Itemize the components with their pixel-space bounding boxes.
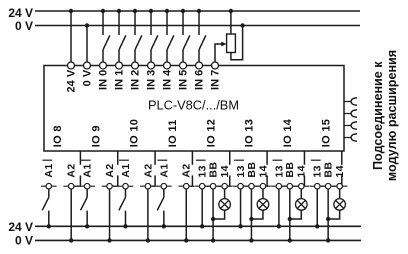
svg-text:0 V: 0 V — [15, 233, 33, 247]
wire: terminal BB to bottom 0 V rail (group 4) — [327, 189, 329, 240]
junction on bottom 24 V rail (13, group 4) — [315, 224, 319, 228]
svg-text:IN 1: IN 1 — [113, 70, 125, 90]
terminal A1 of relay K3 — [118, 183, 134, 189]
junction on 24 V rail (S2) — [133, 9, 137, 13]
overline mark above terminal 13 (group 2) — [234, 159, 244, 161]
svg-text:IN 2: IN 2 — [129, 70, 141, 90]
wire: terminal 14 to lamp H3 — [300, 189, 302, 199]
terminal A1 of relay K1 — [41, 183, 57, 189]
contact switch below A1 (relay K1) — [42, 197, 49, 210]
switch S3 contact (NO) for IN 3 — [151, 35, 158, 49]
svg-text:14: 14 — [257, 165, 269, 177]
wire: terminal 13 to bottom 24 V rail (group 2) — [240, 189, 242, 226]
switch S5 contact (NO) for IN 5 — [183, 35, 190, 49]
pin circle: IN 7 — [212, 62, 219, 69]
expansion bus contact 3 — [344, 122, 357, 129]
terminal BB (group 4) — [320, 183, 336, 189]
svg-text:A1: A1 — [43, 163, 55, 177]
svg-text:IO 8: IO 8 — [52, 125, 64, 147]
wire: terminal strip link to IO 11 leg — [190, 185, 193, 187]
switch S2 contact (NO) for IN 2 — [135, 35, 142, 49]
terminal 14 (group 1) — [217, 183, 233, 189]
wire: pin IN 7 to potentiometer wiper — [215, 44, 222, 62]
pin circle: IN 2 — [132, 62, 139, 69]
junction on bottom 24 V rail (K4) — [162, 224, 166, 228]
wire: contact to bottom 24 V rail (K1) — [48, 211, 50, 227]
wire: 24 V rail drop to switch S5 (IN 5) — [182, 11, 184, 35]
wire: PLC pin IO 14 drop (lower leg) — [303, 175, 305, 186]
terminal BB (group 1) — [205, 183, 221, 189]
junction on 24 V rail (S5) — [181, 9, 185, 13]
terminal A1 of relay K2 — [79, 183, 95, 189]
svg-text:IN 3: IN 3 — [145, 70, 157, 90]
wire: PLC pin IO 13 drop (lower leg) — [266, 175, 268, 186]
overline mark above terminal A1 (relay K3) — [119, 159, 129, 161]
contact switch below A1 (relay K3) — [119, 197, 126, 210]
wire: PLC pin IO 12 drop (lower leg) — [229, 175, 231, 186]
svg-text:A2: A2 — [181, 163, 193, 177]
wire: PLC pin IO 15 drop (lower leg) — [341, 175, 343, 186]
pin circle: IN 0 — [100, 62, 107, 69]
wire: potentiometer R1 bottom to 0 V rail — [231, 26, 243, 60]
svg-text:14: 14 — [296, 165, 308, 177]
terminal BB (group 3) — [282, 183, 298, 189]
wire: terminal A2 K4 to bottom 0 V rail — [185, 189, 187, 240]
contact switch below A1 (relay K2) — [81, 197, 88, 210]
svg-text:IO 9: IO 9 — [90, 125, 102, 147]
junction lamp H1 branch on BB wire — [211, 217, 215, 221]
wire: terminal strip link to IO 9 leg — [113, 185, 118, 187]
junction on 24 V rail (S1) — [117, 9, 121, 13]
pin circle: IN 1 — [116, 62, 123, 69]
wire: 24 V rail drop to switch S0 (IN 0) — [102, 11, 104, 35]
terminal 13 (group 4) — [309, 183, 325, 189]
wire: lamp H1 to BB wire — [213, 210, 225, 219]
wire: switch S5 to pin IN 5 — [182, 50, 184, 63]
wire: PLC pin IO 8 drop (upper) — [79, 151, 81, 165]
wire: PLC pin IO 10 drop (upper) — [154, 151, 156, 165]
junction on bottom 0 V rail (K3) — [146, 238, 150, 242]
svg-text:BB: BB — [246, 162, 258, 178]
wire: PLC pin IO 15 drop (upper) — [341, 151, 343, 165]
lamp H2 — [257, 199, 269, 211]
wire: lamp H2 to BB wire — [251, 210, 263, 219]
pin circle: 24 V — [68, 62, 75, 69]
potentiometer R1 wiper arrow — [221, 42, 226, 47]
wire: terminal A1 K3 to contact — [125, 189, 127, 197]
overline mark above terminal 13 (group 3) — [273, 159, 283, 161]
wire: terminal 13 to bottom 24 V rail (group 3) — [278, 189, 280, 226]
wire: contact to bottom 24 V rail (K4) — [163, 211, 165, 227]
wire: top 24 V rail — [35, 10, 360, 12]
junction on 0 V rail (pin 0V feed) — [85, 23, 89, 27]
wire: PLC pin IO 9 drop (upper) — [117, 151, 119, 165]
svg-text:PLC-V8C/.../BM: PLC-V8C/.../BM — [148, 98, 239, 113]
pin circle: IN 4 — [164, 62, 171, 69]
terminal A2 of relay K4 — [178, 183, 194, 189]
wire: terminal strip link to IO 10 leg — [151, 185, 155, 187]
svg-text:IO 12: IO 12 — [205, 119, 217, 147]
wire: PLC pin IO 12 drop (upper) — [229, 151, 231, 165]
svg-text:IN 6: IN 6 — [193, 70, 205, 90]
junction on 24 V rail (pin 24V feed) — [69, 9, 73, 13]
wire: terminal strip link to IO 12 leg — [228, 185, 230, 187]
wire: switch S4 to pin IN 4 — [166, 50, 168, 63]
svg-text:IN 5: IN 5 — [177, 70, 189, 90]
wire: terminal strip link to IO 14 leg — [304, 185, 306, 187]
junction on bottom 24 V rail (K2) — [85, 224, 89, 228]
svg-text:IO 14: IO 14 — [282, 118, 294, 147]
wire: bottom 0 V rail — [35, 239, 361, 241]
junction on bottom 0 V rail (K1) — [69, 238, 73, 242]
wire: contact to bottom 24 V rail (K3) — [125, 211, 127, 227]
switch S1 contact (NO) for IN 1 — [119, 35, 126, 49]
svg-text:IN 4: IN 4 — [161, 69, 173, 90]
terminal 13 (group 1) — [194, 183, 210, 189]
wire: 24 V rail drop to switch S2 (IN 2) — [134, 11, 136, 35]
svg-text:A2: A2 — [142, 163, 154, 177]
overline mark above terminal 13 (group 1) — [196, 159, 206, 161]
pin circle: IN 3 — [148, 62, 155, 69]
wire: terminal strip link to IO 8 leg — [75, 185, 82, 187]
svg-text:Подсоединение к: Подсоединение к — [371, 61, 385, 170]
wire: terminal 13 to bottom 24 V rail (group 1) — [201, 189, 203, 226]
svg-text:IO 15: IO 15 — [320, 119, 332, 147]
lamp H3 — [296, 199, 308, 211]
svg-text:14: 14 — [334, 165, 346, 177]
wire: 24 V rail drop to switch S3 (IN 3) — [150, 11, 152, 35]
overline mark above terminal A1 (relay K1) — [42, 159, 52, 161]
wire: PLC pin IO 11 drop (upper) — [191, 151, 193, 165]
pin circle: 0 V — [84, 62, 91, 69]
overline mark above terminal A1 (relay K2) — [81, 159, 91, 161]
svg-text:A2: A2 — [104, 163, 116, 177]
svg-text:24 V: 24 V — [8, 6, 33, 20]
switch S4 contact (NO) for IN 4 — [167, 35, 174, 49]
switch S6 contact (NO) for IN 6 — [199, 35, 206, 49]
svg-text:IO 11: IO 11 — [167, 119, 179, 147]
wire: terminal BB to bottom 0 V rail (group 1) — [212, 189, 214, 240]
wire: switch S6 to pin IN 6 — [198, 50, 200, 63]
wire: terminal A2 K3 to bottom 0 V rail — [147, 189, 149, 240]
wire: terminal 14 to lamp H1 — [224, 189, 226, 199]
wire: terminal A2 K1 to bottom 0 V rail — [70, 189, 72, 240]
svg-text:BB: BB — [284, 162, 296, 178]
terminal 14 (group 3) — [294, 183, 310, 189]
pin circle: IN 6 — [196, 62, 203, 69]
PLC module U1 outline — [44, 66, 344, 152]
junction on bottom 24 V rail (13, group 1) — [200, 224, 204, 228]
wire: terminal strip link to IO 13 leg — [266, 185, 267, 187]
lamp H4 — [334, 199, 346, 211]
wire: top 0 V rail — [35, 25, 360, 27]
junction on bottom 0 V rail (BB, group 2) — [249, 238, 253, 242]
switch S0 contact (NO) for IN 0 — [103, 35, 110, 49]
terminal 14 (group 4) — [332, 183, 348, 189]
svg-text:A2: A2 — [66, 163, 78, 177]
junction lamp H4 branch on BB wire — [326, 217, 330, 221]
svg-text:0 V: 0 V — [15, 19, 33, 33]
svg-text:24 V: 24 V — [8, 220, 33, 234]
wire: lamp H4 to BB wire — [328, 210, 340, 219]
svg-text:A1: A1 — [82, 163, 94, 177]
svg-text:0 V: 0 V — [81, 69, 93, 86]
wire: terminal A2 K2 to bottom 0 V rail — [109, 189, 111, 240]
wire: 0 V rail to PLC pin 0V — [86, 26, 88, 63]
svg-text:IO 13: IO 13 — [244, 119, 256, 147]
terminal A2 of relay K1 — [63, 183, 79, 189]
expansion bus contact 1 — [344, 98, 357, 105]
pin circle: IN 5 — [180, 62, 187, 69]
expansion bus contact 2 — [344, 110, 357, 117]
svg-text:A1: A1 — [158, 163, 170, 177]
wire: terminal A1 K2 to contact — [86, 189, 88, 197]
junction on bottom 0 V rail (BB, group 1) — [211, 238, 215, 242]
svg-text:IN 0: IN 0 — [97, 70, 109, 90]
wire: 24 V rail drop to switch S1 (IN 1) — [118, 11, 120, 35]
wire: lamp H3 to BB wire — [290, 210, 302, 219]
junction on bottom 24 V rail (13, group 2) — [238, 224, 242, 228]
junction on bottom 24 V rail (13, group 3) — [277, 224, 281, 228]
wire: PLC pin IO 13 drop (upper) — [266, 151, 268, 165]
wire: switch S2 to pin IN 2 — [134, 50, 136, 63]
svg-text:BB: BB — [208, 162, 220, 178]
overline mark above terminal A1 (relay K4) — [157, 159, 167, 161]
svg-text:24 V: 24 V — [65, 69, 77, 92]
terminal 13 (group 3) — [271, 183, 287, 189]
wire: terminal BB to bottom 0 V rail (group 2) — [250, 189, 252, 240]
wire: terminal A1 K1 to contact — [48, 189, 50, 197]
junction on bottom 0 V rail (K2) — [107, 238, 111, 242]
wire: terminal 14 to lamp H2 — [262, 189, 264, 199]
junction on bottom 0 V rail (BB, group 4) — [326, 238, 330, 242]
junction on bottom 24 V rail (K3) — [123, 224, 127, 228]
terminal A1 of relay K4 — [156, 183, 172, 189]
junction on bottom 24 V rail (K1) — [47, 224, 51, 228]
wire: potentiometer R1 top to 24 V rail — [230, 11, 232, 34]
junction lamp H2 branch on BB wire — [249, 217, 253, 221]
junction on 24 V rail (S0) — [101, 9, 105, 13]
wire: PLC pin IO 14 drop (upper) — [303, 151, 305, 165]
svg-text:IO 10: IO 10 — [129, 119, 141, 147]
wire: 24 V rail drop to switch S4 (IN 4) — [166, 11, 168, 35]
wire: PLC pin IO 11 drop (lower leg) — [191, 175, 193, 186]
expansion bus contact 4 — [344, 134, 357, 141]
wire: PLC pin IO 10 drop (lower leg) — [154, 175, 156, 186]
junction lamp H3 branch on BB wire — [288, 217, 292, 221]
wire: 24 V rail to PLC pin 24V — [70, 11, 72, 62]
wire: terminal strip link to IO 15 leg — [341, 185, 344, 187]
junction on 24 V rail (S4) — [165, 9, 169, 13]
terminal A2 of relay K2 — [102, 183, 118, 189]
junction on 24 V rail (S3) — [149, 9, 153, 13]
terminal BB (group 2) — [244, 183, 260, 189]
svg-text:A1: A1 — [120, 163, 132, 177]
svg-text:14: 14 — [219, 165, 231, 177]
terminal 14 (group 2) — [255, 183, 271, 189]
wire: contact to bottom 24 V rail (K2) — [86, 211, 88, 227]
junction on bottom 0 V rail (BB, group 3) — [288, 238, 292, 242]
terminal A2 of relay K3 — [140, 183, 156, 189]
lamp H1 — [219, 199, 231, 211]
junction on bottom 0 V rail (K4) — [184, 238, 188, 242]
wire: switch S0 to pin IN 0 — [102, 50, 104, 63]
svg-text:BB: BB — [323, 162, 335, 178]
junction on 0 V rail (R1 bottom) — [240, 23, 244, 27]
junction on 24 V rail (R1 top) — [229, 9, 233, 13]
junction on 24 V rail (S6) — [197, 9, 201, 13]
wire: terminal 13 to bottom 24 V rail (group 4) — [316, 189, 318, 226]
overline mark above terminal 13 (group 4) — [311, 159, 321, 161]
contact switch below A1 (relay K4) — [157, 197, 164, 210]
wire: terminal 14 to lamp H4 — [339, 189, 341, 199]
wire: bottom 24 V rail — [35, 225, 361, 227]
potentiometer R1 body — [227, 34, 236, 53]
terminal 13 (group 2) — [233, 183, 249, 189]
wire: PLC pin IO 9 drop (lower leg) — [117, 175, 119, 186]
wire: switch S3 to pin IN 3 — [150, 50, 152, 63]
svg-text:IN 7: IN 7 — [209, 70, 221, 90]
svg-text:модулю расширения: модулю расширения — [385, 50, 399, 181]
wire: terminal BB to bottom 0 V rail (group 3) — [289, 189, 291, 240]
wire: PLC pin IO 8 drop (lower leg) — [79, 175, 81, 186]
wire: switch S1 to pin IN 1 — [118, 50, 120, 63]
wire: terminal A1 K4 to contact — [163, 189, 165, 197]
wire: 24 V rail drop to switch S6 (IN 6) — [198, 11, 200, 35]
